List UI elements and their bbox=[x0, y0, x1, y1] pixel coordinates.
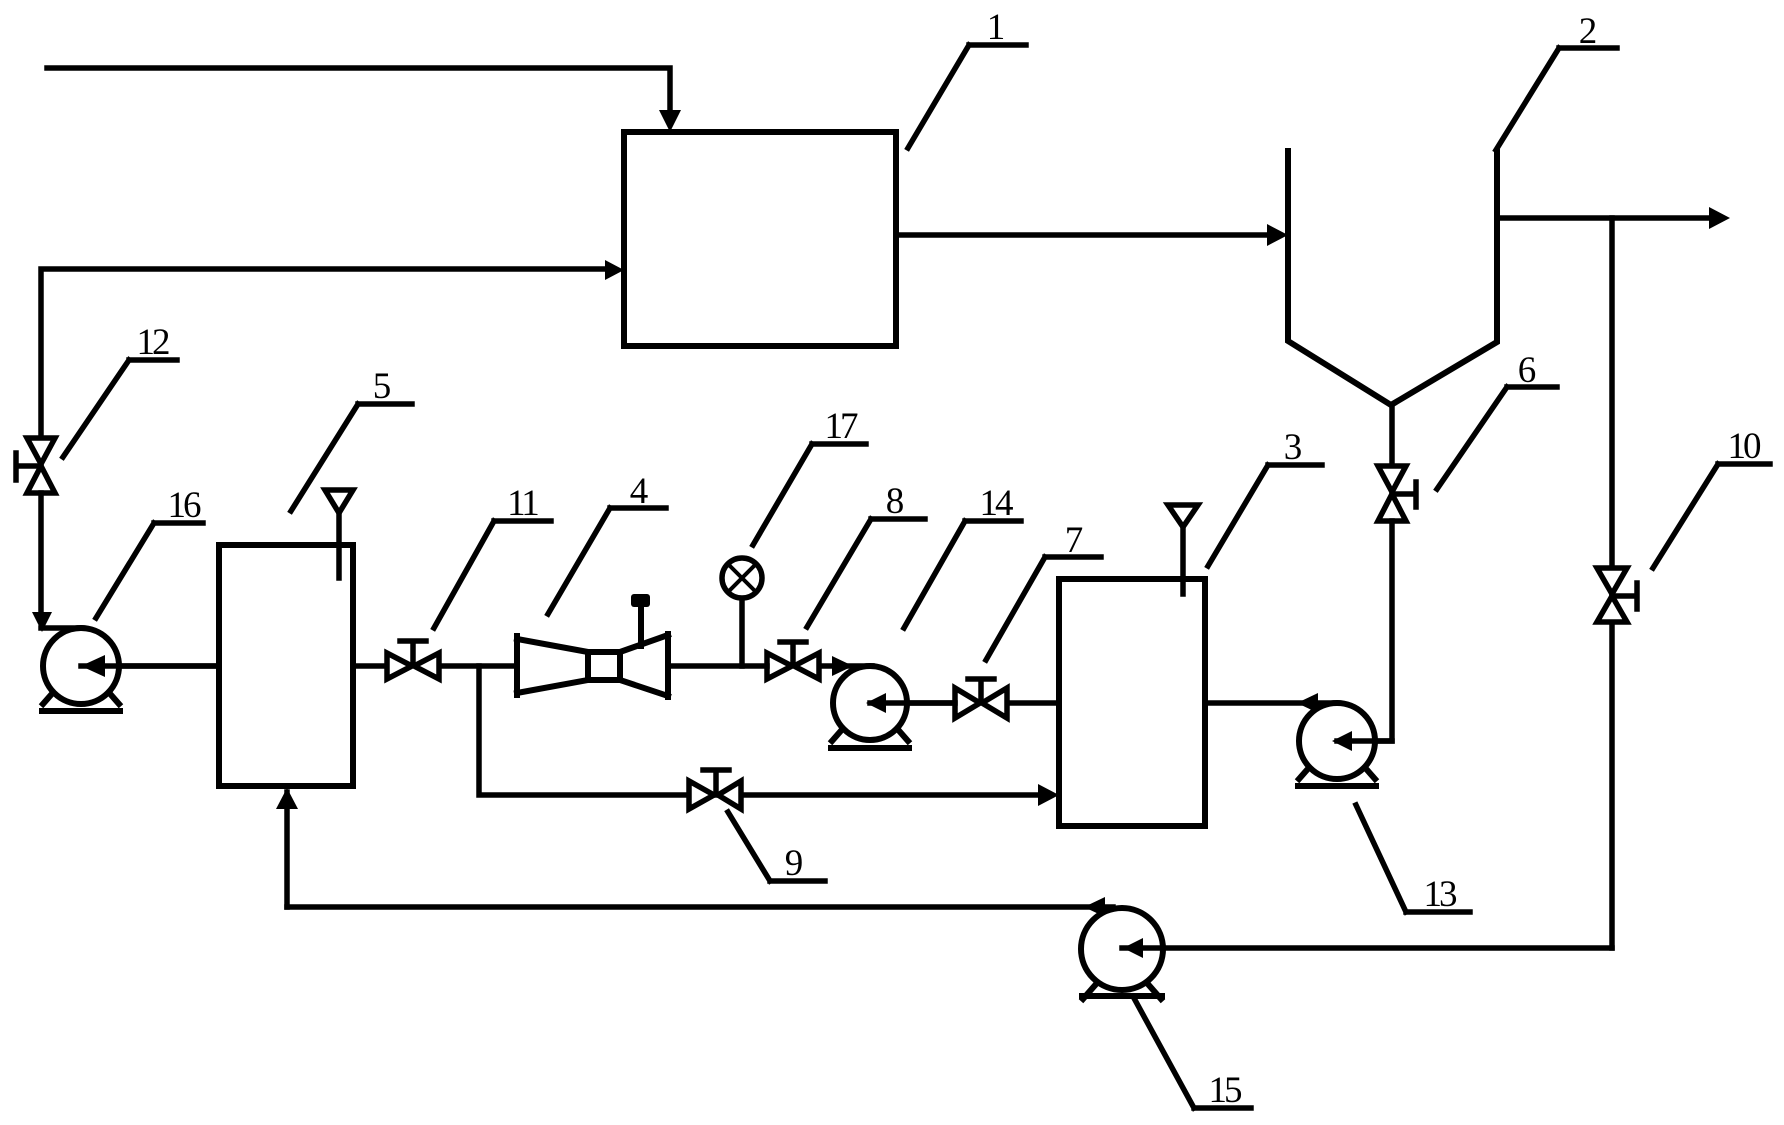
label 15 bbox=[1135, 1000, 1251, 1111]
instrument 17 stem bbox=[739, 598, 745, 666]
valve 11 bbox=[387, 641, 439, 679]
wire recycle into unit 5 bottom bbox=[284, 792, 290, 907]
svg-text:5: 5 bbox=[373, 366, 392, 407]
wire right branch vertical bbox=[1609, 218, 1615, 948]
venturi ejector 4 bbox=[517, 594, 668, 697]
pump 14 bbox=[831, 666, 955, 748]
vessel 2 tank with cone bottom bbox=[1288, 151, 1497, 405]
svg-text:13: 13 bbox=[1424, 874, 1458, 915]
svg-text:7: 7 bbox=[1065, 520, 1084, 561]
pump 13 bbox=[1298, 703, 1392, 786]
valve 9 bbox=[689, 770, 741, 809]
wire valve 6 down to pump 13 bbox=[1345, 521, 1392, 741]
pump 15 bbox=[1081, 908, 1612, 999]
unit box 5 bbox=[219, 545, 353, 786]
arrow outlet right bbox=[1709, 207, 1730, 229]
wire vessel cone to valve 6 bbox=[1389, 408, 1395, 468]
label 13 bbox=[1356, 805, 1470, 915]
label 4 bbox=[548, 471, 666, 614]
svg-text:8: 8 bbox=[886, 481, 905, 522]
arrow toward unit 3 on pump 13 discharge bbox=[1297, 693, 1318, 713]
arrow into unit 1 top bbox=[659, 110, 681, 132]
wire venturi to valve 8 bbox=[668, 663, 767, 669]
vent funnel on unit 3 bbox=[1168, 505, 1198, 594]
wire left feed line into unit 1 bbox=[41, 269, 612, 438]
label 12 bbox=[63, 322, 177, 457]
wire valve 11 to venturi bbox=[439, 663, 517, 669]
valve 12 bbox=[16, 438, 55, 493]
wire valve 8 to pump 14 bbox=[819, 663, 872, 669]
arrow into unit 1 left bbox=[605, 260, 624, 280]
label 7 bbox=[986, 520, 1101, 660]
valve 8 bbox=[767, 642, 819, 679]
label 17 bbox=[753, 406, 866, 545]
label 5 bbox=[291, 366, 412, 511]
wire top feed line into unit 1 bbox=[47, 68, 670, 118]
svg-text:16: 16 bbox=[168, 485, 202, 526]
wire unit 5 to valve 11 bbox=[353, 663, 387, 669]
arrow into pump 14 top bbox=[832, 656, 853, 676]
vent funnel on unit 5 bbox=[325, 490, 353, 578]
wire valve 12 down to pump 16 bbox=[41, 493, 81, 628]
unit box 3 bbox=[1059, 579, 1205, 826]
svg-text:15: 15 bbox=[1209, 1070, 1243, 1111]
label 9 bbox=[728, 812, 825, 884]
arrow at pump 16 inlet elbow bbox=[32, 612, 52, 632]
wire vessel 2 outlet bbox=[1497, 215, 1714, 221]
label 16 bbox=[96, 485, 203, 618]
label 14 bbox=[904, 483, 1021, 628]
svg-text:9: 9 bbox=[785, 843, 804, 884]
valve 6 bbox=[1378, 466, 1416, 521]
wire bottom recycle line bbox=[287, 904, 1113, 910]
svg-text:17: 17 bbox=[825, 406, 859, 447]
wire unit 1 to vessel 2 bbox=[896, 232, 1270, 238]
svg-text:2: 2 bbox=[1579, 11, 1598, 52]
label 3 bbox=[1208, 427, 1322, 566]
svg-text:3: 3 bbox=[1284, 427, 1303, 468]
arrow into pump 16 center bbox=[81, 655, 105, 677]
label 8 bbox=[807, 481, 925, 627]
arrow into unit 3 lower inlet bbox=[1038, 784, 1059, 806]
svg-text:14: 14 bbox=[980, 483, 1014, 524]
wire unit 3 to pump 13 bbox=[1206, 700, 1337, 706]
label 6 bbox=[1437, 350, 1557, 489]
svg-text:11: 11 bbox=[507, 483, 538, 524]
arrow on recycle line near pump 15 bbox=[1084, 897, 1105, 917]
arrow into vessel 2 bbox=[1267, 224, 1288, 246]
label 10 bbox=[1653, 426, 1770, 568]
wire branch down from main line bbox=[479, 666, 1043, 795]
label 2 bbox=[1496, 11, 1617, 150]
wire unit 5 to pump 16 bbox=[81, 663, 219, 669]
valve 10 bbox=[1597, 568, 1637, 622]
instrument 17 gauge circle bbox=[722, 558, 762, 598]
unit box 1 bbox=[624, 132, 896, 346]
svg-text:6: 6 bbox=[1518, 350, 1537, 391]
arrow into unit 5 bottom bbox=[276, 788, 298, 809]
label 1 bbox=[908, 7, 1026, 148]
svg-text:12: 12 bbox=[137, 322, 170, 363]
svg-text:4: 4 bbox=[630, 471, 649, 512]
svg-text:10: 10 bbox=[1728, 426, 1762, 467]
valve 7 bbox=[955, 679, 1007, 718]
label 11 bbox=[434, 483, 551, 628]
wire pump 14 to valve 7 to unit 3 bbox=[870, 700, 1059, 706]
pump 16 bbox=[42, 628, 219, 711]
svg-text:1: 1 bbox=[987, 7, 1006, 48]
